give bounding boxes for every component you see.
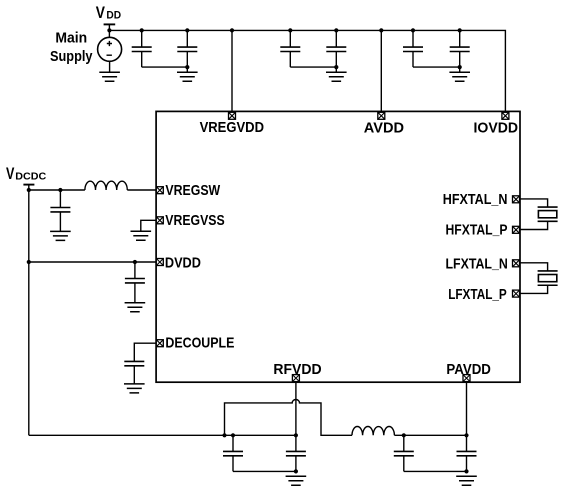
svg-text:DECOUPLE: DECOUPLE <box>165 335 234 352</box>
svg-text:DCDC: DCDC <box>15 170 46 182</box>
svg-text:PAVDD: PAVDD <box>446 361 491 378</box>
svg-text:IOVDD: IOVDD <box>474 120 519 137</box>
svg-text:VREGVDD: VREGVDD <box>200 119 265 136</box>
svg-text:VREGVSS: VREGVSS <box>165 212 224 229</box>
svg-text:LFXTAL_N: LFXTAL_N <box>446 255 508 272</box>
svg-text:DD: DD <box>106 9 121 21</box>
svg-text:RFVDD: RFVDD <box>273 361 321 378</box>
svg-text:HFXTAL_P: HFXTAL_P <box>446 222 508 239</box>
svg-text:VREGSW: VREGSW <box>165 182 220 199</box>
svg-text:HFXTAL_N: HFXTAL_N <box>443 191 508 208</box>
svg-text:V: V <box>96 4 105 22</box>
svg-text:Main: Main <box>55 29 87 46</box>
svg-text:LFXTAL_P: LFXTAL_P <box>448 286 507 303</box>
svg-text:DVDD: DVDD <box>165 254 201 271</box>
svg-text:V: V <box>6 165 14 183</box>
svg-text:Supply: Supply <box>50 48 93 65</box>
svg-text:AVDD: AVDD <box>364 120 404 137</box>
